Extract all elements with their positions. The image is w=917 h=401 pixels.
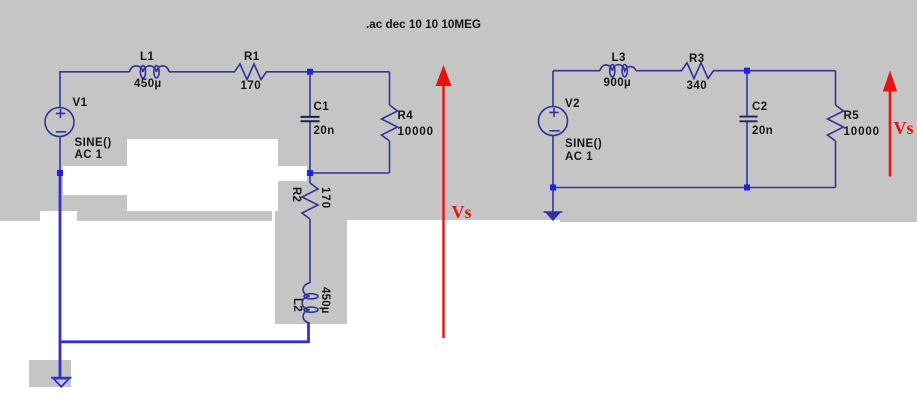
wire L1 to R1 — [169, 71, 235, 73]
inductor L3 — [600, 65, 636, 77]
wire L3 to R3 — [636, 70, 682, 72]
label C1 — [314, 102, 330, 113]
node square at R1/C1 top — [307, 69, 313, 75]
value 10000 R4 — [398, 127, 434, 138]
value 450u L2 (rotated) — [319, 287, 330, 314]
node square at C1 bottom — [307, 170, 313, 176]
label L1 — [140, 52, 154, 63]
white cutout A (big) — [127, 139, 278, 211]
voltage source V1 — [45, 108, 74, 137]
capacitor C2 — [740, 117, 758, 122]
wire C2 bottom lead — [746, 122, 748, 187]
label L2 (rotated) — [291, 298, 302, 312]
label AC 1 V2 — [565, 152, 593, 163]
label AC 1 V1 — [75, 150, 103, 161]
label SINE() V2 — [565, 139, 602, 150]
wire top right circuit — [553, 70, 600, 72]
white cutout B2 (right notch to node) — [278, 166, 307, 181]
thick bright wire V1 to ground and across bottom — [59, 175, 309, 377]
gray patch around left ground — [29, 360, 71, 387]
inductor L1 — [130, 66, 170, 78]
wire V2 ground stub — [552, 189, 554, 212]
value 170 R2 (rotated) — [319, 187, 330, 209]
wire V2 top lead — [552, 71, 554, 107]
label R2 (rotated) — [290, 187, 301, 202]
label Vs right (red) — [894, 119, 914, 137]
gray column around R2/L2 — [275, 211, 347, 324]
wire V1 bottom lead — [59, 137, 61, 172]
node square at V2 bottom — [550, 185, 556, 191]
value 20n C1 — [314, 126, 335, 137]
ground V1 — [51, 378, 72, 387]
inductor L2 — [302, 283, 318, 323]
wire top left — [59, 71, 129, 73]
gray band far right — [560, 210, 917, 222]
wire R3 to corner — [715, 70, 836, 72]
wire bottom right circuit — [553, 187, 836, 189]
resistor R2 — [302, 183, 318, 219]
resistor R4 — [382, 105, 398, 141]
wire C2 top lead — [746, 72, 748, 116]
red arrow Vs left — [436, 65, 452, 338]
white cutout B (left of A) — [63, 166, 127, 195]
value 20n C2 — [752, 126, 773, 137]
node square at C2 bottom — [744, 185, 750, 191]
wire V1 top lead — [59, 72, 61, 108]
wire R5 bottom lead — [835, 141, 837, 188]
label V2 — [565, 99, 580, 110]
red arrow Vs right — [883, 71, 897, 177]
node square at R3/C2 top — [744, 68, 750, 74]
wire R4 top lead — [389, 72, 391, 105]
value 10000 R5 — [844, 127, 880, 138]
label L3 — [612, 53, 626, 64]
resistor R3 — [682, 63, 716, 79]
ground V2 — [544, 211, 563, 213]
wire R2 top lead — [309, 175, 311, 183]
value 900u L3 — [604, 78, 632, 89]
label R4 — [398, 111, 414, 122]
wire R1 to node and corner — [268, 71, 390, 73]
resistor R5 — [828, 105, 844, 141]
wire R5 top lead — [835, 71, 837, 105]
label Vs left (red) — [452, 203, 472, 221]
label R5 — [844, 111, 860, 122]
value 450u L1 — [134, 79, 162, 90]
gray band right of R2 column — [347, 210, 560, 220]
capacitor C1 — [301, 117, 320, 121]
gray band lower-left small patch — [0, 210, 40, 221]
label R3 — [689, 54, 705, 65]
gray band mid — [77, 210, 272, 221]
spice directive text — [366, 19, 481, 30]
label V1 — [73, 98, 88, 109]
value 170 R1 — [241, 81, 262, 92]
voltage source V2 — [539, 107, 568, 136]
resistor R1 — [235, 64, 269, 80]
wire R4 bottom lead — [389, 141, 391, 173]
wire V2 bottom lead — [552, 136, 554, 188]
wire C1 top lead — [309, 73, 311, 117]
gray screenshot background main block — [0, 0, 917, 211]
wire bottom (C1 node to R4) — [310, 172, 390, 174]
node square at V1 bottom — [57, 170, 63, 176]
value 340 R3 — [687, 81, 708, 92]
label R1 — [244, 52, 260, 63]
wire R2 to L2 — [309, 219, 311, 283]
wire C1 bottom lead — [309, 121, 311, 171]
label SINE() V1 — [75, 138, 112, 149]
label C2 — [752, 102, 768, 113]
